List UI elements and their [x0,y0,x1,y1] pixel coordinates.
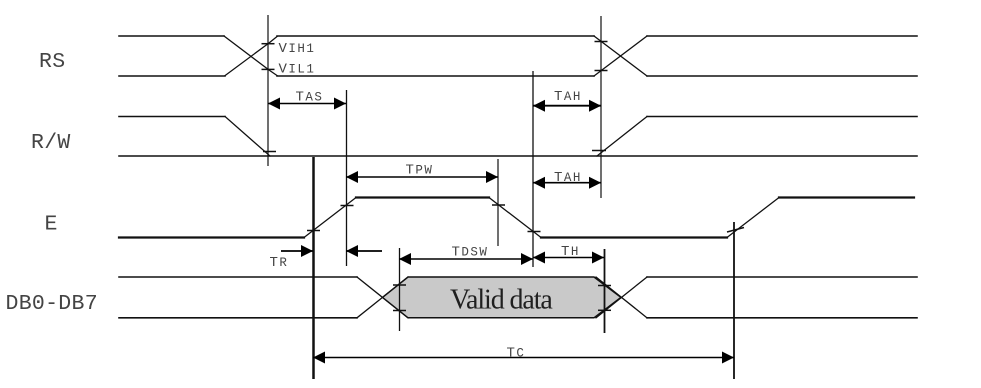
wire E rising edge 2 [727,198,779,238]
svg-text:TAH: TAH [554,170,582,186]
wire E rising edge 1 [304,198,356,238]
wire RS low level left segment [119,75,225,77]
wire R/W falling edge [225,117,270,157]
wire RS crossover 1 falling diagonal [224,36,277,76]
tick on DB crossover 2 upper at x=604 [598,285,611,287]
reference line x=601 R/W rise / TAH end [600,16,602,198]
dimension arrow TR outside right pointing left at 346 [346,245,382,257]
reference line x=734 TC end [733,222,735,379]
wire RS crossover 2 rising diagonal [594,36,647,76]
dimension arrow TAH lower 533 to 601 [533,177,601,189]
svg-text:TDSW: TDSW [452,245,489,261]
wire E low level left segment [119,236,304,238]
svg-text:VIH1: VIH1 [279,41,316,57]
wire R/W low level full segment [119,155,917,157]
svg-text:TR: TR [270,255,289,271]
dimension arrow TR outside left pointing right at 313 [281,245,313,257]
dimension arrow TAS 268 to 346 [268,98,346,110]
reference line x=313 thick, E rise start / TC start [312,157,315,379]
wire RS low level middle segment [277,75,594,77]
tick on R/W rising edge start [592,150,606,152]
dimension arrow TC 313 to 734 [313,352,734,364]
wire DB0-DB7 crossover 2 rising diagonal [596,277,647,318]
wire DB0-DB7 high level left segment [119,276,357,278]
wire RS crossover 1 rising diagonal [225,37,277,76]
reference line x=498 TPW end [497,159,499,246]
wire E falling edge [489,198,541,238]
svg-text:TH: TH [561,244,580,260]
wire E high level right segment [779,196,914,198]
reference line at RS transition 1 x=268 [267,15,269,166]
dimension arrow TH 533 to 604 [533,252,604,264]
wire DB0-DB7 crossover 2 falling diagonal [596,277,647,318]
wire RS high level left segment [119,35,224,37]
tick on R/W falling edge end [263,151,276,153]
svg-text:E: E [45,213,58,237]
wire DB0-DB7 low level left segment [119,317,357,319]
wire RS crossover 2 falling diagonal [594,36,647,76]
svg-text:VIL1: VIL1 [279,62,316,78]
tick on DB crossover 2 lower at x=604 [598,309,611,311]
wire RS high level middle segment [277,35,594,37]
wire RS high level right segment [647,35,917,37]
tick on DB crossover 1 lower at x=399 [393,310,406,312]
svg-text:TAH: TAH [554,89,582,105]
reference line x=399 TDSW start [399,248,401,331]
tick VIL1 level on RS transition 1 [262,68,275,70]
svg-text:R/W: R/W [31,131,71,155]
reference line x=533 E fall end / TDSW end [532,71,534,267]
reference line x=346 TAS end / TPW start [346,90,348,266]
wire RS low level right segment [647,75,917,77]
wire E low level middle segment [541,236,727,238]
wire DB0-DB7 high level right segment [647,276,917,278]
wire DB0-DB7 low level right segment [647,317,917,319]
wire E high level segment [356,196,489,198]
reference line x=604 TH end [604,249,606,333]
tick on E rising edge 1 at x=313 [307,230,320,232]
dimension arrow TPW 346 to 498 [346,171,498,183]
tick VIH1 level on RS transition 2 [595,41,608,43]
wire R/W rising edge [597,117,647,157]
tick on E falling edge at x=498 [492,204,505,206]
tick VIL1 level on RS transition 2 [595,70,608,72]
valid data bus hexagon [383,277,622,318]
dimension arrow TDSW 399 to 533 [399,253,533,265]
svg-text:DB0-DB7: DB0-DB7 [6,292,98,316]
dimension arrow TAH upper 533 to 601 [533,100,601,112]
svg-text:RS: RS [39,50,65,74]
tick on DB crossover 1 upper at x=399 [393,284,406,286]
svg-text:Valid data: Valid data [450,285,553,316]
wire DB0-DB7 crossover 1 falling diagonal [357,277,408,318]
wire R/W high level left segment [119,116,225,118]
wire R/W high level right segment [647,116,917,118]
wire DB0-DB7 crossover 1 rising diagonal [357,277,408,318]
tick VIH1 level on RS transition 1 [262,43,275,45]
svg-text:TC: TC [507,346,526,362]
tick on E rising edge 2 at x=734 [727,228,744,233]
svg-text:TAS: TAS [296,90,324,106]
tick on E rising edge 1 at x=346 [341,205,354,207]
svg-text:TPW: TPW [406,163,434,179]
tick on E falling edge at x=533 [528,231,541,233]
